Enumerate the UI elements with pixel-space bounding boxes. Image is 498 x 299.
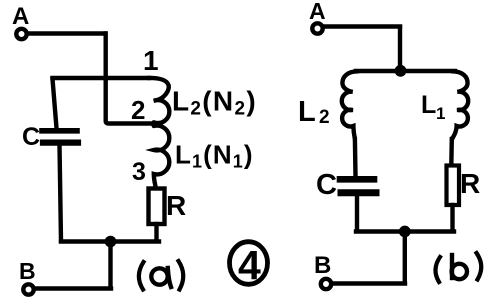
svg-text:3: 3 — [132, 158, 146, 186]
svg-text:1: 1 — [436, 104, 445, 123]
terminal A — [16, 29, 26, 39]
junction dot bottom (b) — [399, 226, 411, 238]
svg-text:2: 2 — [319, 107, 330, 128]
svg-text:L: L — [298, 96, 316, 128]
wire L1 to resistor (b) — [449, 139, 454, 166]
wire below resistor — [154, 224, 158, 241]
wire top node horizontal (b) — [356, 69, 455, 73]
wire below resistor (b) — [450, 205, 454, 231]
caption (b) : left paren — [435, 257, 440, 282]
svg-text:B: B — [19, 258, 36, 284]
wire left drop to capacitor — [53, 79, 57, 128]
capacitor C top plate (b) — [340, 176, 374, 183]
junction dot (a) — [105, 236, 117, 248]
wire to terminal B (b) — [331, 281, 405, 285]
capacitor C top plate — [42, 128, 77, 134]
svg-text:A: A — [12, 3, 29, 30]
figure circle — [230, 242, 268, 285]
resistor R (b) — [447, 166, 460, 206]
terminal B (b) — [321, 279, 331, 289]
wire top horizontal (node 1 to C branch) — [53, 76, 150, 80]
inductor L1 (b) — [452, 71, 468, 139]
junction dot top (b) — [395, 65, 407, 77]
resistor R — [149, 189, 165, 225]
svg-text:C: C — [22, 123, 40, 151]
svg-text:R: R — [460, 168, 480, 199]
wire corner down to tap 2 — [106, 34, 151, 124]
caption (b) : right paren — [477, 253, 482, 280]
svg-text:L: L — [421, 91, 436, 119]
svg-text:L1(N1): L1(N1) — [175, 140, 254, 172]
wire below capacitor — [60, 145, 62, 241]
wire bottom horizontal (b) — [356, 229, 454, 233]
wire A to corner — [28, 31, 105, 35]
capacitor C bottom plate — [43, 140, 78, 146]
wire junction down (b) — [403, 232, 407, 283]
caption (a) : letter a — [151, 268, 171, 287]
svg-text:C: C — [316, 169, 337, 201]
caption (a) : left paren — [139, 262, 144, 290]
inductor L2 (upper winding) — [148, 78, 169, 123]
wire to terminal B — [34, 286, 111, 290]
svg-text:4: 4 — [238, 242, 261, 288]
caption (b) : letter b — [452, 255, 467, 279]
svg-text:1: 1 — [143, 45, 159, 76]
inductor L2 (b) — [342, 71, 358, 138]
wire corner down to top node (b) — [398, 27, 402, 69]
wire L2 to capacitor (b) — [353, 139, 358, 176]
inductor L1 (lower winding) — [154, 126, 170, 188]
wire A to corner (b) — [324, 24, 400, 28]
svg-text:A: A — [309, 0, 326, 24]
wire bottom horizontal — [61, 239, 159, 243]
terminal A (b) — [312, 23, 322, 33]
svg-text:R: R — [166, 190, 186, 221]
terminal B — [23, 284, 33, 294]
wire below capacitor (b) — [355, 197, 359, 232]
capacitor C bottom plate (b) — [341, 189, 376, 196]
caption (a) : right paren — [179, 261, 184, 290]
wire junction down — [108, 242, 112, 288]
svg-text:B: B — [314, 252, 331, 279]
svg-text:L2(N2): L2(N2) — [172, 86, 257, 120]
svg-text:2: 2 — [131, 95, 145, 125]
